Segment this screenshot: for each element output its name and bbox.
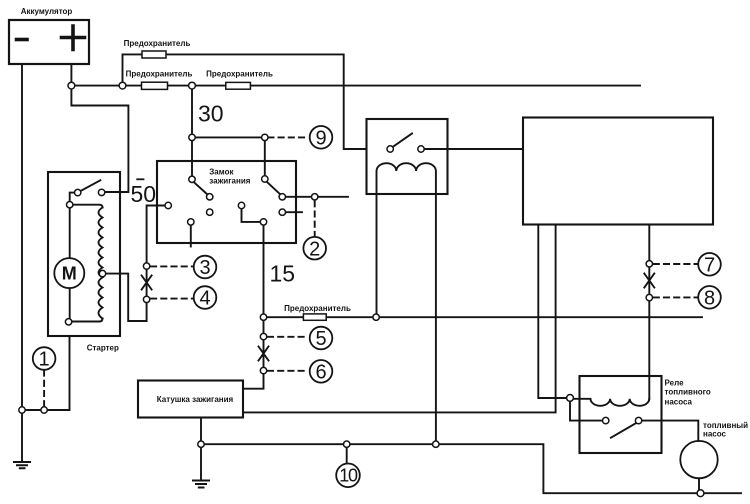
svg-text:Предохранитель: Предохранитель — [126, 70, 193, 79]
svg-text:10: 10 — [339, 466, 358, 486]
svg-text:7: 7 — [704, 255, 715, 277]
svg-text:4: 4 — [199, 288, 210, 310]
svg-text:Предохранитель: Предохранитель — [284, 304, 351, 313]
svg-text:8: 8 — [704, 288, 715, 310]
svg-text:50: 50 — [131, 181, 157, 207]
svg-text:Предохранитель: Предохранитель — [206, 70, 273, 79]
svg-text:Замок: Замок — [209, 168, 234, 177]
svg-text:топливного: топливного — [665, 388, 711, 397]
svg-text:насос: насос — [703, 430, 727, 439]
svg-text:Предохранитель: Предохранитель — [124, 39, 191, 48]
svg-text:30: 30 — [198, 101, 224, 127]
svg-text:6: 6 — [315, 362, 326, 384]
svg-text:Стартер: Стартер — [87, 344, 119, 353]
svg-text:3: 3 — [199, 257, 210, 279]
svg-text:M: M — [62, 264, 77, 284]
svg-text:1: 1 — [39, 349, 50, 371]
svg-text:зажигания: зажигания — [209, 176, 250, 185]
svg-text:9: 9 — [315, 128, 326, 150]
svg-text:Аккумулятор: Аккумулятор — [21, 7, 73, 16]
svg-text:15: 15 — [270, 261, 296, 287]
svg-text:насоса: насоса — [665, 397, 693, 406]
svg-text:2: 2 — [309, 238, 320, 260]
svg-text:Реле: Реле — [665, 379, 685, 388]
svg-text:5: 5 — [315, 328, 326, 350]
svg-text:Катушка зажигания: Катушка зажигания — [157, 395, 234, 404]
